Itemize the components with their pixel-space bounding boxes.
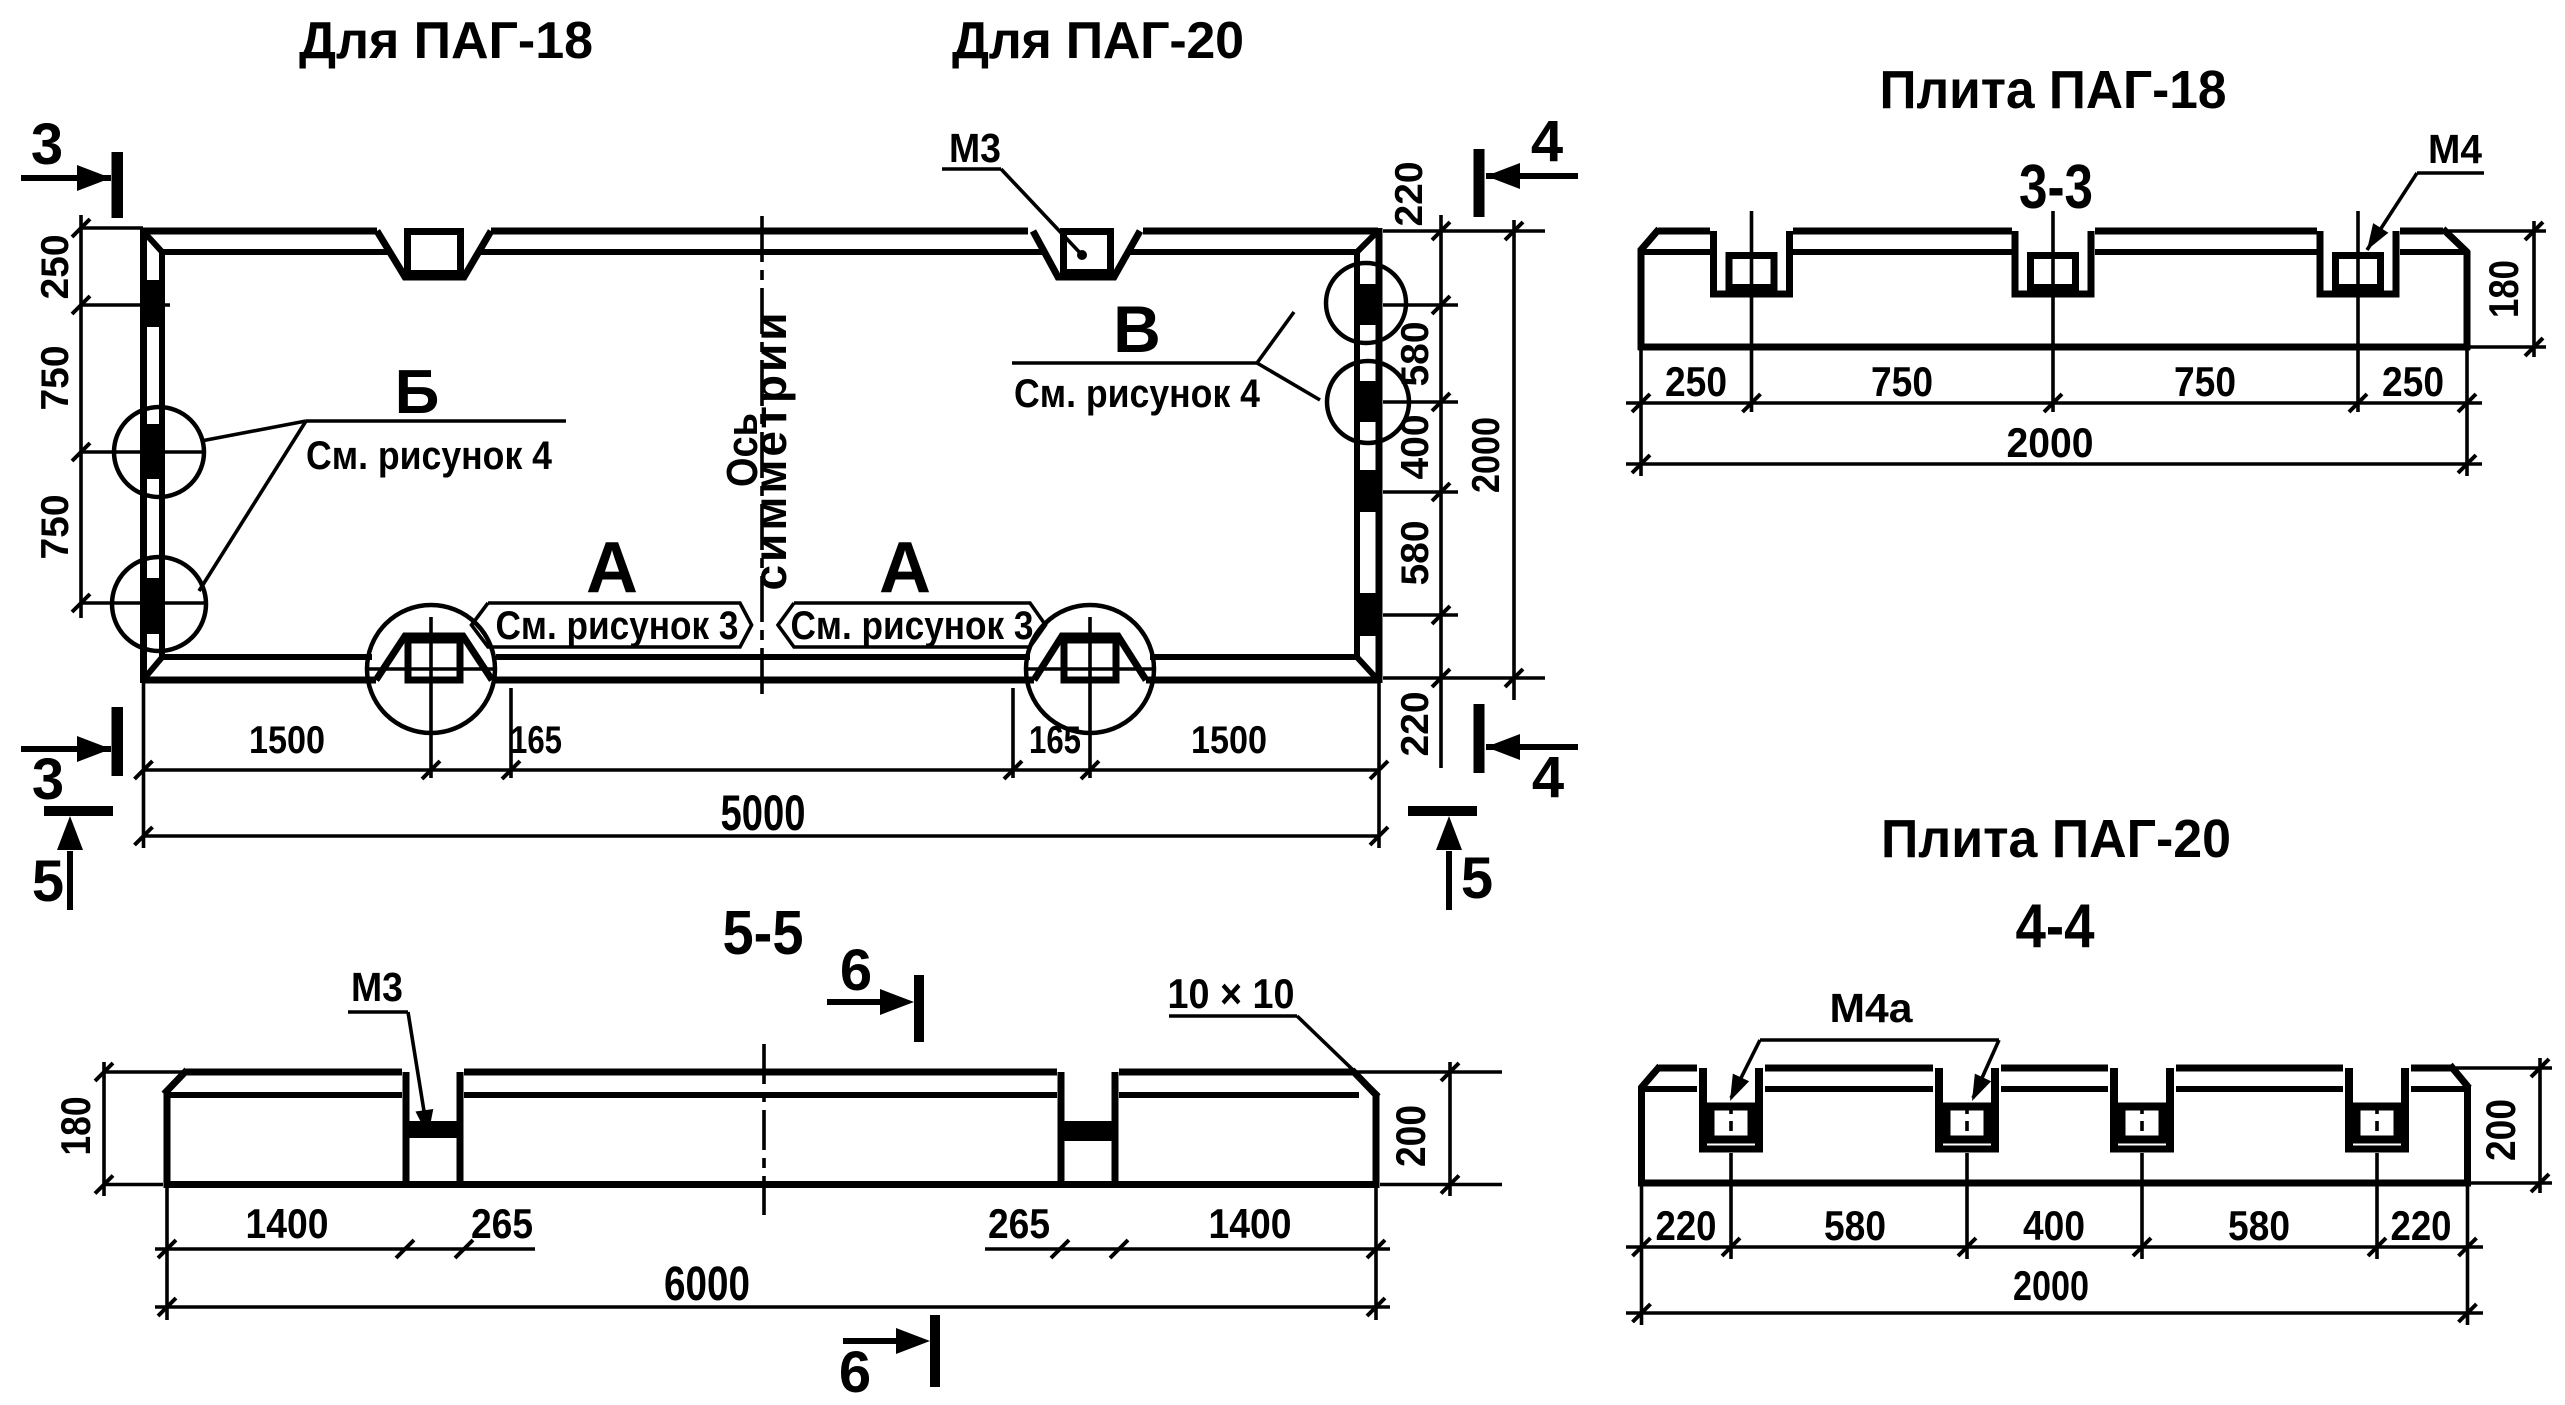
plan inner top line right xyxy=(1128,249,1357,255)
tick bottom dim1 notch1 xyxy=(422,761,440,779)
4-4 top edge seg2 xyxy=(1765,1065,1933,1072)
3-3 left edge xyxy=(1638,249,1645,350)
left dim extension plate1 xyxy=(81,303,170,307)
tick right dim p4 xyxy=(1432,606,1450,624)
3-3 ext bottom right xyxy=(2470,345,2546,349)
4-4 dimension line 2 (2000) xyxy=(1626,1311,2483,1315)
svg-text:1400: 1400 xyxy=(246,1200,329,1247)
3-3 ext left edge down xyxy=(1639,350,1643,476)
svg-text:220: 220 xyxy=(1394,691,1437,756)
svg-text:580: 580 xyxy=(2228,1202,2290,1249)
svg-text:750: 750 xyxy=(34,345,77,410)
5-5 left edge xyxy=(164,1092,171,1188)
plan bottom notch 1 recess xyxy=(376,636,492,680)
M4a right leader xyxy=(1973,1040,1999,1098)
tick 3-3 dim1 L xyxy=(1632,394,1650,412)
3-3 left chamfer xyxy=(1640,229,1659,251)
tick 4-4 200 top xyxy=(2531,1059,2549,1077)
5-5 ext 200 top xyxy=(1356,1070,1502,1074)
tick 5000 left xyxy=(135,827,153,845)
4-4 second line seg5 xyxy=(2411,1086,2467,1092)
svg-text:5: 5 xyxy=(32,849,64,914)
tick right dim top xyxy=(1432,222,1450,240)
tick 3-3 180 bottom xyxy=(2525,338,2543,356)
M4a right arrowhead xyxy=(1972,1074,1991,1101)
4-4 notch 4 centerline extension xyxy=(2375,1153,2379,1259)
svg-text:6: 6 xyxy=(840,938,872,1003)
tick left dim 750a xyxy=(72,443,90,461)
5-5 second line seg1 xyxy=(167,1092,402,1098)
tick 3-3 2000 R xyxy=(2458,455,2476,473)
left edge joint plate 2 xyxy=(144,424,166,479)
bottom ext 165 left xyxy=(509,688,513,778)
svg-text:А: А xyxy=(586,528,638,608)
section mark 6 top arrow line xyxy=(827,999,902,1005)
4-4 notch 4 U right wall xyxy=(2401,1068,2409,1149)
svg-text:М3: М3 xyxy=(351,964,403,1010)
4-4 top edge seg3 xyxy=(2001,1065,2108,1072)
tick 3-3 dim1 R xyxy=(2458,394,2476,412)
svg-text:580: 580 xyxy=(1394,520,1437,585)
plan outer left edge xyxy=(140,228,147,683)
4-4 second line seg2 xyxy=(1765,1086,1933,1092)
tick 5-5 dim1 w4 xyxy=(1110,1240,1128,1258)
4-4 notch 3 dashed axis xyxy=(2140,1104,2144,1138)
svg-text:580: 580 xyxy=(1824,1202,1886,1249)
svg-text:4: 4 xyxy=(1531,109,1563,174)
tick right dim p3 xyxy=(1432,483,1450,501)
tick 5-5 dim1 w1 xyxy=(396,1240,414,1258)
3-3 top edge seg1 xyxy=(1658,228,1710,235)
section mark 5 right arrowhead xyxy=(1436,816,1462,850)
section mark 3 top bar xyxy=(112,152,124,218)
plan corner diagonal bottom-right xyxy=(1355,655,1378,680)
4-4 notch 2 U right wall xyxy=(1991,1068,1999,1149)
svg-text:Для ПАГ-20: Для ПАГ-20 xyxy=(952,12,1244,70)
left edge joint plate 1 xyxy=(144,280,166,327)
bottom notch 2 horizontal axis xyxy=(1026,667,1154,671)
plan inner left line xyxy=(159,252,165,657)
svg-text:Плита ПАГ-18: Плита ПАГ-18 xyxy=(1880,60,2227,120)
right dim extension plate1 xyxy=(1383,303,1458,307)
4-4 ext 200 bottom xyxy=(2471,1181,2552,1185)
5-5 right notch anchor plate xyxy=(1065,1121,1112,1141)
svg-text:200: 200 xyxy=(1387,1105,1434,1167)
tick 5-5 dim1 R xyxy=(1367,1240,1385,1258)
4-4 notch 2 inner box xyxy=(1947,1107,1988,1140)
3-3 notch 2 outer U xyxy=(2015,231,2091,294)
left dim extension plate3 xyxy=(81,601,207,605)
tick bottom dim1 165R xyxy=(1004,761,1022,779)
3-3 dimension line 1 xyxy=(1626,401,2482,405)
callout В leader to upper circle xyxy=(1257,312,1294,363)
left edge joint plate 3 xyxy=(144,578,166,634)
svg-text:750: 750 xyxy=(34,494,77,559)
right dim extension plate2 xyxy=(1383,400,1458,404)
5-5 top edge seg3 xyxy=(1119,1069,1353,1076)
svg-text:2000: 2000 xyxy=(2013,1262,2089,1309)
svg-text:180: 180 xyxy=(52,1097,99,1156)
plan outer bottom edge left segment xyxy=(143,677,376,684)
4-4 second line seg3 xyxy=(2001,1086,2108,1092)
section mark 6 bottom bar xyxy=(930,1315,940,1387)
svg-text:400: 400 xyxy=(1394,414,1437,479)
tick 4-4 dim1 n4 xyxy=(2368,1238,2386,1256)
4-4 notch 2 centerline extension xyxy=(1965,1153,1969,1259)
svg-text:1500: 1500 xyxy=(249,719,325,762)
4-4 notch 2 U bottom xyxy=(1935,1146,1999,1153)
plan inner top line middle xyxy=(479,249,1044,255)
3-3 second line seg2 xyxy=(1793,249,2012,255)
right dim extension plate3 xyxy=(1383,490,1458,494)
4-4 notch 1 U bottom xyxy=(1699,1146,1763,1153)
detail circle bottom notch 1 xyxy=(367,605,495,733)
bottom ext left edge xyxy=(142,683,146,848)
axis of symmetry dash-dot line xyxy=(760,216,764,700)
svg-text:3: 3 xyxy=(31,112,63,177)
bottom notch 1 horizontal axis xyxy=(367,667,495,671)
tick 4-4 dim1 R xyxy=(2459,1238,2477,1256)
svg-text:180: 180 xyxy=(2480,260,2527,318)
tick 3-3 dim1 n3 xyxy=(2349,394,2367,412)
tick bottom dim1 right xyxy=(1370,761,1388,779)
5-5 second line seg3 xyxy=(1119,1092,1359,1098)
bottom ext 165 right xyxy=(1011,688,1015,778)
tick 5-5 200 bottom xyxy=(1441,1176,1459,1194)
plan inner right line xyxy=(1354,252,1360,657)
5-5 ext left edge down xyxy=(165,1188,169,1320)
svg-text:250: 250 xyxy=(1665,358,1727,405)
tick bottom dim1 left xyxy=(135,761,153,779)
5-5 left notch right wall xyxy=(457,1072,464,1185)
tick right dim p1 xyxy=(1432,296,1450,314)
svg-text:265: 265 xyxy=(471,1200,533,1247)
tick 5-5 180 top xyxy=(95,1063,113,1081)
3-3 notch 3 inner box xyxy=(2336,256,2381,288)
tick 5-5 200 top xyxy=(1441,1063,1459,1081)
detail circle bottom notch 2 xyxy=(1026,605,1154,733)
plan corner diagonal bottom-left xyxy=(143,655,164,680)
4-4 notch 4 inner box xyxy=(2357,1107,2398,1140)
4-4 notch 3 U bottom xyxy=(2110,1146,2174,1153)
tick 5-5 180 bottom xyxy=(95,1176,113,1194)
3-3 right edge xyxy=(2464,251,2471,350)
plan outer top edge right segment xyxy=(1143,228,1378,235)
3-3 second line seg4 xyxy=(2400,249,2467,255)
left dim extension plate2 xyxy=(81,450,204,454)
svg-text:М4: М4 xyxy=(2428,126,2482,172)
svg-text:См. рисунок 4: См. рисунок 4 xyxy=(306,434,553,478)
10x10 leader xyxy=(1297,1016,1379,1095)
5-5 ext 180 bottom xyxy=(104,1183,163,1187)
section mark 6 bottom arrowhead xyxy=(896,1328,930,1354)
5-5 ext right edge down xyxy=(1374,1188,1378,1320)
M4 leader xyxy=(2367,173,2417,250)
detail circle left plate 2 xyxy=(114,407,204,497)
svg-text:2000: 2000 xyxy=(1465,417,1508,493)
M4 underline xyxy=(2417,171,2484,175)
plan top notch 2 recess xyxy=(1033,231,1140,277)
4-4 notch 4 U left wall xyxy=(2345,1068,2353,1149)
3-3 notch 3 centerline xyxy=(2356,211,2360,412)
svg-text:4: 4 xyxy=(1532,745,1564,810)
right dim extension top edge xyxy=(1383,229,1545,233)
5-5 top edge seg2 xyxy=(464,1069,1057,1076)
4-4 dimension line 1 xyxy=(1626,1245,2483,1249)
tick right dim p2 xyxy=(1432,393,1450,411)
svg-text:6000: 6000 xyxy=(664,1258,750,1311)
section mark 5 right arrow stem xyxy=(1446,851,1452,910)
svg-text:2000: 2000 xyxy=(2007,419,2094,466)
section mark 5 left arrowhead xyxy=(57,816,83,850)
M3 5-5 leader xyxy=(408,1012,428,1136)
5-5 left chamfer xyxy=(164,1070,187,1094)
tick 3-3 2000 L xyxy=(1632,455,1650,473)
4-4 notch 1 dashed axis xyxy=(1729,1104,1733,1138)
section mark 6 top arrowhead xyxy=(880,989,914,1015)
5-5 right edge xyxy=(1373,1095,1380,1188)
4-4 bottom edge xyxy=(1638,1180,2471,1187)
tick 6000 R xyxy=(1367,1298,1385,1316)
svg-text:220: 220 xyxy=(1656,1202,1717,1249)
4-4 second line seg4 xyxy=(2176,1086,2343,1092)
right dim extension bottom edge xyxy=(1383,676,1545,680)
tick 4-4 200 bottom xyxy=(2531,1174,2549,1192)
3-3 right chamfer xyxy=(2443,229,2468,253)
tick left dim 250 xyxy=(72,296,90,314)
tick 5-5 dim1 w2 xyxy=(455,1240,473,1258)
right dimension line 2 (2000) xyxy=(1512,220,1516,700)
section mark 5 left arrow stem xyxy=(67,851,73,910)
callout В underline xyxy=(1012,361,1257,365)
4-4 notch 3 U right wall xyxy=(2166,1068,2174,1149)
3-3 second line seg3 xyxy=(2095,249,2317,255)
svg-text:265: 265 xyxy=(988,1200,1050,1247)
section mark 3 bottom arrow line xyxy=(21,746,111,752)
3-3 top edge seg3 xyxy=(2095,228,2317,235)
tick 6000 L xyxy=(158,1298,176,1316)
plan corner diagonal top-left xyxy=(143,231,164,254)
callout Б leader to upper circle xyxy=(201,421,306,441)
plan top notch 1 anchor box xyxy=(408,232,461,274)
5-5 top edge seg1 xyxy=(186,1069,402,1076)
3-3 notch 1 outer U xyxy=(1714,231,1790,294)
section mark 4 bottom arrowhead xyxy=(1486,734,1520,760)
section mark 6 bottom arrow line xyxy=(843,1338,918,1344)
svg-text:См. рисунок 3: См. рисунок 3 xyxy=(496,604,739,648)
4-4 notch 1 U right wall xyxy=(1755,1068,1763,1149)
bottom ext right edge xyxy=(1377,683,1381,848)
svg-text:5: 5 xyxy=(1461,846,1493,911)
5-5 ext 180 top xyxy=(104,1070,182,1074)
section mark 3 top arrowhead xyxy=(77,165,111,191)
tick 3-3 dim1 n1 xyxy=(1743,394,1761,412)
tick 4-4 dim1 n3 xyxy=(2133,1238,2151,1256)
svg-text:220: 220 xyxy=(2391,1202,2452,1249)
3-3 top edge seg4 xyxy=(2400,228,2443,235)
section mark 3 top arrow line xyxy=(21,175,111,181)
svg-text:В: В xyxy=(1113,292,1161,366)
4-4 notch 3 centerline extension xyxy=(2140,1153,2144,1259)
tick bottom dim1 165L xyxy=(502,761,520,779)
5-5 dim line 200 xyxy=(1448,1062,1452,1196)
plan outer bottom edge middle segment xyxy=(492,677,1034,684)
callout А right flag outline xyxy=(778,603,1046,647)
M4a underline xyxy=(1760,1038,1999,1042)
section mark 4 bottom arrow line xyxy=(1486,744,1578,750)
svg-text:М4а: М4а xyxy=(1830,985,1914,1031)
tick 4-4 dim1 L xyxy=(1633,1238,1651,1256)
4-4 top edge seg5 xyxy=(2411,1065,2451,1072)
plan bottom notch 2 recess xyxy=(1034,636,1146,680)
tick bottom dim1 notch2 xyxy=(1081,761,1099,779)
left dim extension top xyxy=(81,226,143,230)
svg-text:10 × 10: 10 × 10 xyxy=(1168,970,1295,1017)
section mark 5 right bar xyxy=(1408,806,1477,816)
svg-text:6: 6 xyxy=(839,1340,871,1405)
5-5 bottom edge xyxy=(164,1181,1379,1188)
4-4 notch 3 U left wall xyxy=(2110,1068,2118,1149)
4-4 left chamfer xyxy=(1641,1066,1660,1088)
4-4 top edge seg4 xyxy=(2176,1065,2343,1072)
plan corner diagonal top-right xyxy=(1355,231,1378,254)
svg-text:5-5: 5-5 xyxy=(723,899,804,968)
4-4 notch 1 U left wall xyxy=(1699,1068,1707,1149)
svg-text:165: 165 xyxy=(1029,719,1081,762)
svg-text:3-3: 3-3 xyxy=(2019,153,2093,222)
5-5 ext 200 bottom xyxy=(1380,1183,1502,1187)
M4a left leader xyxy=(1731,1040,1760,1098)
5-5 left notch anchor plate xyxy=(410,1121,457,1138)
svg-text:580: 580 xyxy=(1394,321,1437,386)
3-3 notch 2 inner box xyxy=(2031,256,2076,288)
3-3 notch 3 outer U xyxy=(2320,231,2396,294)
plan top notch 2 anchor box xyxy=(1064,232,1111,273)
right edge joint plate 1 xyxy=(1357,284,1380,325)
tick left dim 750b xyxy=(72,594,90,612)
section mark 4 top arrowhead xyxy=(1486,163,1520,189)
tick 4-4 dim1 n2 xyxy=(1958,1238,1976,1256)
10x10 underline xyxy=(1169,1014,1297,1018)
4-4 notch 3 inner box xyxy=(2122,1107,2163,1140)
3-3 notch 1 centerline xyxy=(1750,211,1754,412)
plan inner bottom line left xyxy=(162,654,372,660)
4-4 right edge xyxy=(2464,1086,2471,1186)
bottom dimension line 1 xyxy=(144,768,1380,772)
3-3 notch 1 inner box xyxy=(1729,256,1774,288)
4-4 ext 200 top xyxy=(2452,1066,2552,1070)
svg-text:200: 200 xyxy=(2477,1099,2524,1161)
4-4 notch 2 dashed axis xyxy=(1965,1104,1969,1138)
3-3 dim line 180 xyxy=(2532,221,2536,357)
tick 4-4 2000 R xyxy=(2459,1304,2477,1322)
3-3 second line seg1 xyxy=(1641,249,1710,255)
5-5 dimension line 2 (6000) xyxy=(155,1305,1390,1309)
5-5 axis dash-dot xyxy=(762,1044,766,1215)
bottom notch 2 centerline xyxy=(1088,617,1092,778)
tick right dim bottom xyxy=(1432,669,1450,687)
right dim extension plate4 xyxy=(1383,613,1458,617)
svg-text:симметрии: симметрии xyxy=(744,309,796,590)
plan bottom notch 1 anchor box xyxy=(408,640,460,680)
5-5 right notch right wall xyxy=(1112,1072,1119,1185)
tick 4-4 dim1 n1 xyxy=(1722,1238,1740,1256)
svg-text:Б: Б xyxy=(395,358,440,427)
tick 3-3 180 top xyxy=(2525,222,2543,240)
section mark 4 bottom bar xyxy=(1474,704,1485,773)
3-3 bottom edge xyxy=(1638,344,2470,351)
M4 arrowhead xyxy=(2367,223,2388,250)
5-5 dim line 180 xyxy=(102,1062,106,1196)
section mark 4 top bar xyxy=(1474,149,1485,217)
4-4 notch 4 U bottom xyxy=(2345,1146,2409,1153)
section mark 4 top arrow line xyxy=(1486,173,1578,179)
svg-text:220: 220 xyxy=(1388,161,1431,226)
M3 5-5 arrowhead xyxy=(415,1109,433,1136)
section mark 6 top bar xyxy=(914,975,924,1042)
4-4 left edge xyxy=(1638,1086,1645,1186)
svg-text:3: 3 xyxy=(32,747,64,812)
right edge joint plate 4 xyxy=(1357,593,1380,636)
tick 2000 top xyxy=(1505,222,1523,240)
svg-text:Плита ПАГ-20: Плита ПАГ-20 xyxy=(1881,809,2231,869)
right edge joint plate 3 xyxy=(1357,470,1380,512)
4-4 ext right edge down xyxy=(2466,1186,2470,1325)
4-4 second line seg1 xyxy=(1641,1086,1697,1092)
4-4 top edge seg1 xyxy=(1659,1065,1697,1072)
4-4 notch 4 dashed axis xyxy=(2375,1104,2379,1138)
svg-text:250: 250 xyxy=(34,234,77,299)
svg-text:1400: 1400 xyxy=(1209,1200,1292,1247)
3-3 ext top right xyxy=(2443,229,2546,233)
detail circle left plate 3 xyxy=(112,557,206,651)
left dimension line xyxy=(79,215,83,618)
plan inner bottom line right xyxy=(1150,654,1357,660)
tick 5-5 dim1 w3 xyxy=(1051,1240,1069,1258)
plan top notch 1 recess xyxy=(377,231,491,277)
tick left dim top xyxy=(72,219,90,237)
svg-text:165: 165 xyxy=(510,719,562,762)
svg-text:1500: 1500 xyxy=(1191,719,1267,762)
svg-text:5000: 5000 xyxy=(721,785,806,841)
tick 5-5 dim1 L xyxy=(158,1240,176,1258)
plan outer bottom edge right segment xyxy=(1146,677,1378,684)
detail circle right plate 1 xyxy=(1326,263,1406,343)
3-3 dimension line 2 (2000) xyxy=(1626,462,2482,466)
plan inner top line left xyxy=(162,249,390,255)
M3 callout dot xyxy=(1077,250,1087,260)
plan outer right edge xyxy=(1376,228,1383,683)
M3 5-5 underline xyxy=(348,1010,408,1014)
5-5 dimension line 1 left part xyxy=(155,1247,535,1251)
callout Б leader to lower circle xyxy=(199,421,306,591)
5-5 left notch left wall xyxy=(403,1072,410,1185)
M4a left arrowhead xyxy=(1730,1074,1749,1101)
callout А left flag outline xyxy=(472,603,752,647)
5-5 right chamfer xyxy=(1352,1070,1378,1097)
M3 underline xyxy=(942,167,1001,171)
M3 leader line xyxy=(1001,169,1082,255)
svg-text:См. рисунок 4: См. рисунок 4 xyxy=(1014,372,1261,416)
plan outer top edge left segment xyxy=(143,228,377,235)
tick 4-4 2000 L xyxy=(1633,1304,1651,1322)
section mark 3 bottom arrowhead xyxy=(77,736,111,762)
3-3 notch 2 centerline xyxy=(2051,211,2055,412)
bottom dimension line 2 (5000) xyxy=(144,834,1380,838)
svg-text:750: 750 xyxy=(2174,358,2236,405)
svg-text:Для ПАГ-18: Для ПАГ-18 xyxy=(299,12,593,70)
4-4 dim line 200 xyxy=(2538,1058,2542,1193)
